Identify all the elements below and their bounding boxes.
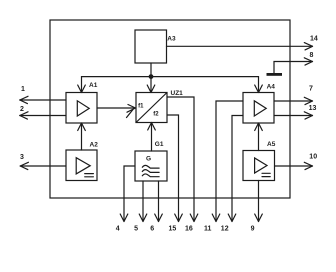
pin 6 arrowhead (155, 214, 163, 222)
wire A3 output to pin 14 (167, 45, 313, 47)
wire pin 2 to A1 (20, 115, 66, 117)
arrowhead into A4 bottom (255, 123, 263, 131)
wire A5 output to pin 10 (275, 165, 313, 167)
wire G1 bottom to pin 6 (158, 181, 160, 222)
svg-text:A4: A4 (267, 84, 276, 91)
A5 equals sign (262, 173, 270, 176)
wire A5 bottom to pin 9 (258, 181, 260, 222)
svg-text:8: 8 (310, 52, 314, 59)
wire pin 3 to A2 (20, 165, 66, 167)
A5 triangle symbol (255, 158, 267, 173)
wire A4 output to pin 7 (274, 100, 313, 102)
amplifier A2 box (66, 150, 97, 181)
mixer diagonal (136, 93, 167, 123)
svg-text:G1: G1 (155, 141, 164, 148)
mixer UZ1 box (136, 93, 167, 123)
pin 5 arrowhead (139, 214, 147, 222)
wire A5 top to A4 bottom (258, 124, 260, 151)
svg-text:1: 1 (21, 86, 25, 93)
arrowhead into mixer top (147, 85, 155, 93)
svg-text:16: 16 (185, 225, 193, 232)
pin 11 arrowhead (212, 214, 220, 222)
AGC line A1 top (82, 77, 152, 92)
wire mixer output to pin 15 (167, 115, 179, 222)
ground bar (267, 73, 283, 76)
arrowhead into mixer bottom (148, 123, 156, 131)
wire A2 top to A1 bottom (81, 124, 83, 151)
svg-text:12: 12 (221, 225, 229, 232)
svg-text:10: 10 (309, 154, 317, 161)
pin 12 arrowhead (228, 214, 236, 222)
IC boundary rectangle (50, 20, 290, 198)
amplifier A5 box (243, 151, 275, 181)
pin 13 arrowhead (304, 112, 312, 119)
svg-text:5: 5 (134, 225, 138, 232)
G1 wave symbol line 1 (142, 165, 159, 168)
svg-text:11: 11 (204, 225, 212, 232)
pin 4 arrowhead (120, 214, 128, 222)
svg-text:A1: A1 (89, 82, 98, 89)
wire mixer output to pin 16 (167, 97, 194, 222)
pin 14 arrowhead (304, 43, 312, 50)
amplifier A1 box (66, 93, 97, 124)
arrowhead into A4 top (255, 85, 263, 93)
svg-text:f2: f2 (153, 111, 159, 117)
pin 10 arrowhead (304, 162, 312, 169)
wire pin 12 to A4 input (232, 116, 243, 222)
wire A4 output to pin 13 (274, 115, 313, 117)
amplifier A4 box (243, 93, 274, 124)
svg-text:13: 13 (309, 105, 317, 112)
A2 triangle symbol (76, 158, 90, 174)
wire A3 bottom to mixer top (150, 63, 152, 92)
block A3 box (135, 30, 167, 63)
svg-text:6: 6 (150, 225, 154, 232)
G1 wave symbol line 2 (142, 170, 159, 173)
svg-text:14: 14 (310, 35, 318, 42)
pin 2 arrowhead (20, 112, 28, 119)
A4 triangle symbol (254, 101, 266, 116)
arrowhead into A1 top (78, 85, 86, 93)
arrowhead into mixer left (127, 105, 136, 118)
pin 8 arrowhead (304, 58, 312, 65)
pin 9 arrowhead (255, 214, 263, 222)
svg-text:4: 4 (116, 225, 120, 232)
wire ground to pin 8 (274, 62, 313, 74)
wire A1 output to mixer (97, 107, 135, 109)
svg-text:UZ1: UZ1 (171, 90, 184, 97)
pin 3 arrowhead (20, 162, 28, 169)
wire G1 top to mixer bottom (151, 123, 153, 151)
svg-text:15: 15 (169, 225, 177, 232)
wire G1 bottom to pin 5 (142, 181, 144, 222)
oscillator G1 box (135, 151, 167, 181)
svg-text:G: G (146, 156, 151, 163)
pin 15 arrowhead (175, 214, 183, 222)
A1 triangle symbol (77, 101, 89, 116)
A2 equals sign (85, 174, 94, 177)
svg-text:7: 7 (309, 86, 313, 93)
svg-text:9: 9 (251, 225, 255, 232)
svg-text:A2: A2 (90, 141, 99, 148)
arrowhead into A1 bottom (78, 123, 86, 131)
svg-text:3: 3 (20, 154, 24, 161)
junction dot (149, 74, 154, 79)
G1 wave symbol line 3 (142, 174, 159, 177)
pin 16 arrowhead (190, 214, 198, 222)
pin 7 arrowhead (304, 97, 312, 104)
AGC line to A4 top (151, 77, 259, 92)
wire G1 left to pin 4 (124, 166, 135, 222)
wire pin 1 to A1 (20, 99, 66, 101)
pin 1 arrowhead (20, 96, 28, 103)
wire pin 11 to A4 input (216, 101, 243, 222)
svg-text:A3: A3 (167, 36, 176, 43)
svg-text:A5: A5 (267, 141, 276, 148)
svg-text:2: 2 (20, 106, 24, 113)
svg-text:f1: f1 (138, 103, 144, 109)
